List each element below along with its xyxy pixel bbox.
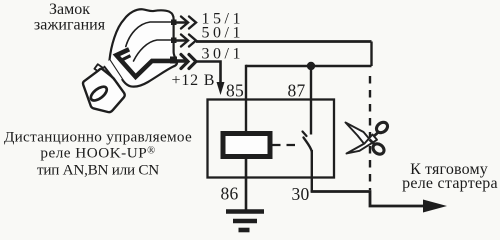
svg-text:85: 85 xyxy=(226,81,244,101)
svg-text:30: 30 xyxy=(292,184,310,204)
svg-text:реле HOOK-UP®: реле HOOK-UP® xyxy=(40,145,155,162)
svg-text:50/1: 50/1 xyxy=(202,25,244,42)
svg-text:87: 87 xyxy=(288,81,306,101)
svg-text:реле стартера: реле стартера xyxy=(402,175,498,192)
ignition lock body xyxy=(110,9,178,86)
svg-text:86: 86 xyxy=(221,184,239,204)
chevron 15/1 xyxy=(176,17,196,29)
wire pin87 drop xyxy=(310,66,312,135)
svg-text:30/1: 30/1 xyxy=(202,46,244,63)
ground xyxy=(226,212,264,231)
chevron 30/1 (thick) xyxy=(176,55,196,69)
wire pin30 bottom run xyxy=(311,192,426,207)
svg-text:зажигания: зажигания xyxy=(34,17,106,34)
dashed actuator link xyxy=(272,144,301,146)
arrow to starter relay xyxy=(423,200,447,213)
connector edge taps xyxy=(171,20,177,26)
lock cylinder collar band xyxy=(104,60,121,84)
scissors xyxy=(346,120,390,156)
svg-text:тип AN,BN или CN: тип AN,BN или CN xyxy=(37,162,159,179)
key head xyxy=(83,69,125,112)
wire 50/1 horizontal xyxy=(196,40,372,43)
wire: bus y=65 xyxy=(246,65,372,67)
key shaft tip xyxy=(94,64,103,72)
wire pin86 to ground xyxy=(245,156,248,210)
switch fixed contact tick (pin 87) xyxy=(303,132,307,137)
chevron 50/1 xyxy=(176,35,196,47)
relay coil xyxy=(223,134,270,157)
svg-text:Замок: Замок xyxy=(49,1,90,18)
dashed cut wire xyxy=(369,76,371,190)
dark stripe between key and cylinder xyxy=(101,71,116,88)
dark connector inside lock xyxy=(116,50,172,77)
switch arm xyxy=(304,138,312,152)
wire pin30 down xyxy=(311,150,313,192)
wire: right vertical 50/1 down xyxy=(370,42,372,67)
wire 30/1 corner down with +12V arrow xyxy=(196,62,221,85)
node junction (bus to pin 87) xyxy=(307,62,315,70)
wire pin85 drop xyxy=(245,65,247,133)
key head hole xyxy=(88,84,109,103)
inner wire curve 1 xyxy=(126,22,171,47)
inner wire curve 2 xyxy=(134,40,172,61)
svg-text:Дистанционно управляемое: Дистанционно управляемое xyxy=(4,129,192,146)
relay box xyxy=(208,100,335,178)
svg-text:+12 В: +12 В xyxy=(172,72,216,89)
